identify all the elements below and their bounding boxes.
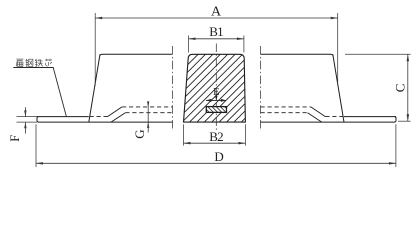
svg-text:B2: B2 xyxy=(209,129,223,144)
dimension B1 extension line left xyxy=(188,36,190,53)
raised core top hidden edge right xyxy=(261,106,311,108)
right step bottom slant xyxy=(308,113,322,122)
svg-text:D: D xyxy=(214,149,223,164)
label D xyxy=(214,149,223,164)
raised core bottom hidden edge right xyxy=(261,112,308,114)
dimension E line with outward arrows xyxy=(206,99,226,102)
dimension G line through xyxy=(147,107,149,133)
svg-text:F: F xyxy=(7,135,22,142)
dimension D extension line right xyxy=(395,124,397,167)
dimension B1 line with arrows xyxy=(189,38,244,41)
left rubber cone outer edge xyxy=(89,54,100,122)
dimension A line with arrows xyxy=(95,17,338,19)
label G xyxy=(132,130,147,139)
centerline right element xyxy=(260,46,262,131)
dimension D line with arrows xyxy=(36,162,396,165)
right step top slant xyxy=(311,107,326,117)
left step bottom slant xyxy=(111,113,125,122)
label B1 xyxy=(209,24,223,39)
dimension F lower arrow xyxy=(24,122,26,134)
callout underline xyxy=(13,67,53,69)
dimension E leader arrow xyxy=(215,95,218,100)
svg-text:E: E xyxy=(213,87,219,98)
central rubber element (sectioned, hatched) outline xyxy=(114,50,321,124)
dimension G upper arrow xyxy=(147,101,149,107)
svg-text:G: G xyxy=(132,130,147,139)
left rubber cone top edge xyxy=(100,54,173,55)
dimension C line with arrows xyxy=(407,54,410,121)
hidden plate top edge under left rubber xyxy=(90,116,108,118)
label B2 xyxy=(209,129,223,144)
callout leader line xyxy=(53,68,66,118)
left step top slant xyxy=(108,107,123,117)
svg-text:C: C xyxy=(392,84,407,92)
dimension B2 extension line right xyxy=(244,124,246,145)
label E xyxy=(213,87,219,98)
label C xyxy=(392,84,407,92)
right rubber cone outer edge xyxy=(333,54,344,122)
dimension F upper arrow xyxy=(24,107,26,116)
callout text flat steel core xyxy=(16,59,52,67)
label A xyxy=(211,5,222,20)
plate bottom edge right run xyxy=(261,121,395,123)
dimension C extension line bottom xyxy=(398,120,411,122)
raised core top hidden edge left xyxy=(122,106,173,108)
right rubber cone top edge xyxy=(261,54,334,55)
steel base plate outline (left visible part) xyxy=(37,117,89,123)
flat steel core cross-section (reverse hatched) xyxy=(198,106,241,115)
hidden plate top edge under right rubber xyxy=(325,116,343,118)
svg-text:B1: B1 xyxy=(209,24,223,39)
dimension F extension line top xyxy=(17,116,38,118)
dimension F extension line bottom xyxy=(17,121,38,123)
dimension D extension line left xyxy=(35,124,37,167)
centerline central element xyxy=(215,44,217,131)
plate top edge right visible part xyxy=(344,116,396,118)
dimension A extension line left xyxy=(94,13,96,86)
dimension B1 extension line right xyxy=(243,36,245,53)
label F xyxy=(7,135,22,142)
centerline left element xyxy=(172,46,174,131)
dimension C extension line top xyxy=(345,53,411,55)
dimension A extension line right xyxy=(337,13,339,83)
raised core bottom hidden edge left xyxy=(125,112,172,114)
plate bottom edge left run xyxy=(39,121,173,123)
dimension B2 extension line left xyxy=(183,124,185,145)
plate right end edge xyxy=(395,117,397,123)
dimension B2 line with arrows xyxy=(184,142,246,145)
